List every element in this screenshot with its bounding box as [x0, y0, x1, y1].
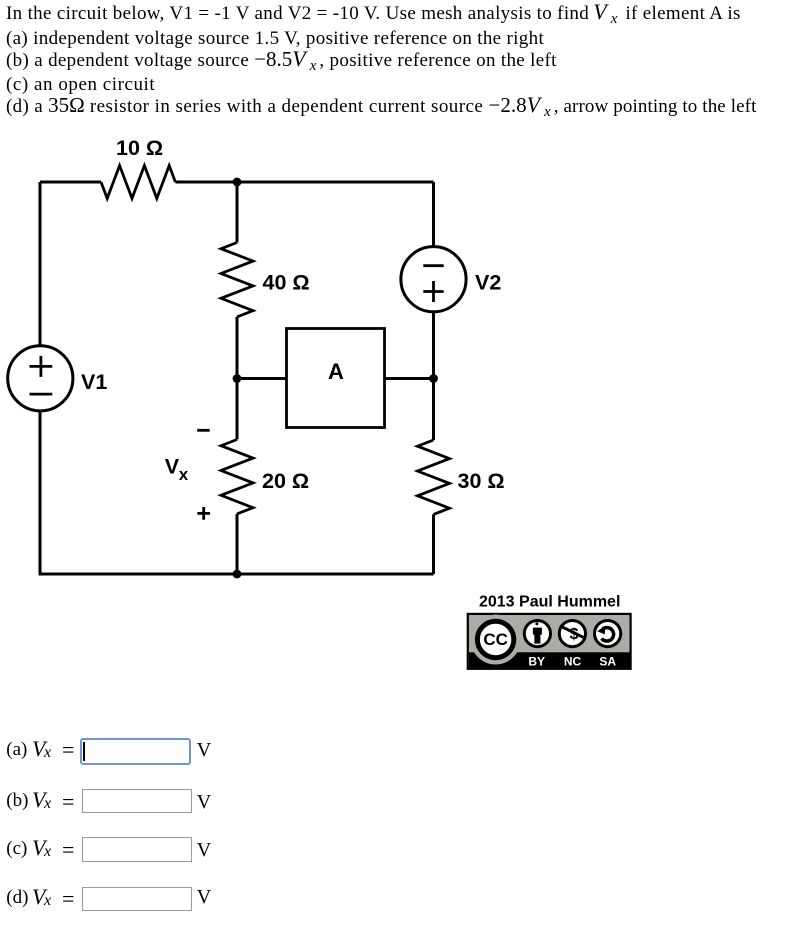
wire A right — [385, 377, 434, 380]
svg-text:V1: V1 — [81, 370, 107, 394]
resistor R 10ohm — [101, 166, 175, 199]
svg-text:30 Ω: 30 Ω — [458, 469, 505, 493]
wire left upper — [39, 182, 42, 346]
cc logo halo — [471, 615, 521, 665]
svg-text:40 Ω: 40 Ω — [263, 271, 310, 295]
wire right mid — [432, 312, 435, 440]
wire middle mid — [236, 317, 239, 440]
cc logo circle — [477, 621, 513, 657]
svg-text:2013 Paul Hummel: 2013 Paul Hummel — [479, 594, 620, 611]
wire right bottom — [432, 514, 435, 574]
wire middle top — [236, 182, 239, 243]
svg-text:V: V — [165, 454, 180, 478]
svg-text:SA: SA — [599, 655, 616, 669]
wire middle bottom — [236, 514, 239, 574]
plus sign polarity — [197, 507, 210, 520]
svg-text:x: x — [179, 465, 189, 484]
svg-text:BY: BY — [528, 655, 545, 669]
svg-text:A: A — [328, 359, 344, 384]
svg-text:CC: CC — [483, 630, 508, 649]
bottom wire — [39, 573, 434, 576]
resistor R 30ohm — [418, 440, 450, 514]
node junction bottom — [233, 570, 242, 579]
voltage source V2 — [401, 247, 466, 312]
resistor R 40ohm — [221, 243, 253, 317]
wire left lower — [39, 411, 42, 576]
node junction mid right — [429, 374, 438, 383]
node junction mid left — [233, 374, 242, 383]
minus sign polarity — [197, 429, 210, 432]
wire A left — [237, 377, 287, 380]
node junction top — [233, 178, 242, 187]
wire right top — [432, 182, 435, 247]
element A box — [287, 329, 385, 428]
sa icon — [595, 621, 621, 647]
voltage source V1 — [8, 346, 73, 411]
by icon — [524, 621, 550, 647]
nc icon — [559, 621, 585, 647]
svg-text:20 Ω: 20 Ω — [262, 469, 309, 493]
svg-text:10 Ω: 10 Ω — [116, 136, 163, 160]
resistor R 20ohm — [221, 440, 253, 514]
svg-text:V2: V2 — [475, 270, 501, 294]
svg-text:NC: NC — [564, 655, 582, 669]
top wire — [40, 181, 434, 184]
cc badge frame — [468, 614, 631, 669]
cc badge black band — [469, 652, 630, 669]
